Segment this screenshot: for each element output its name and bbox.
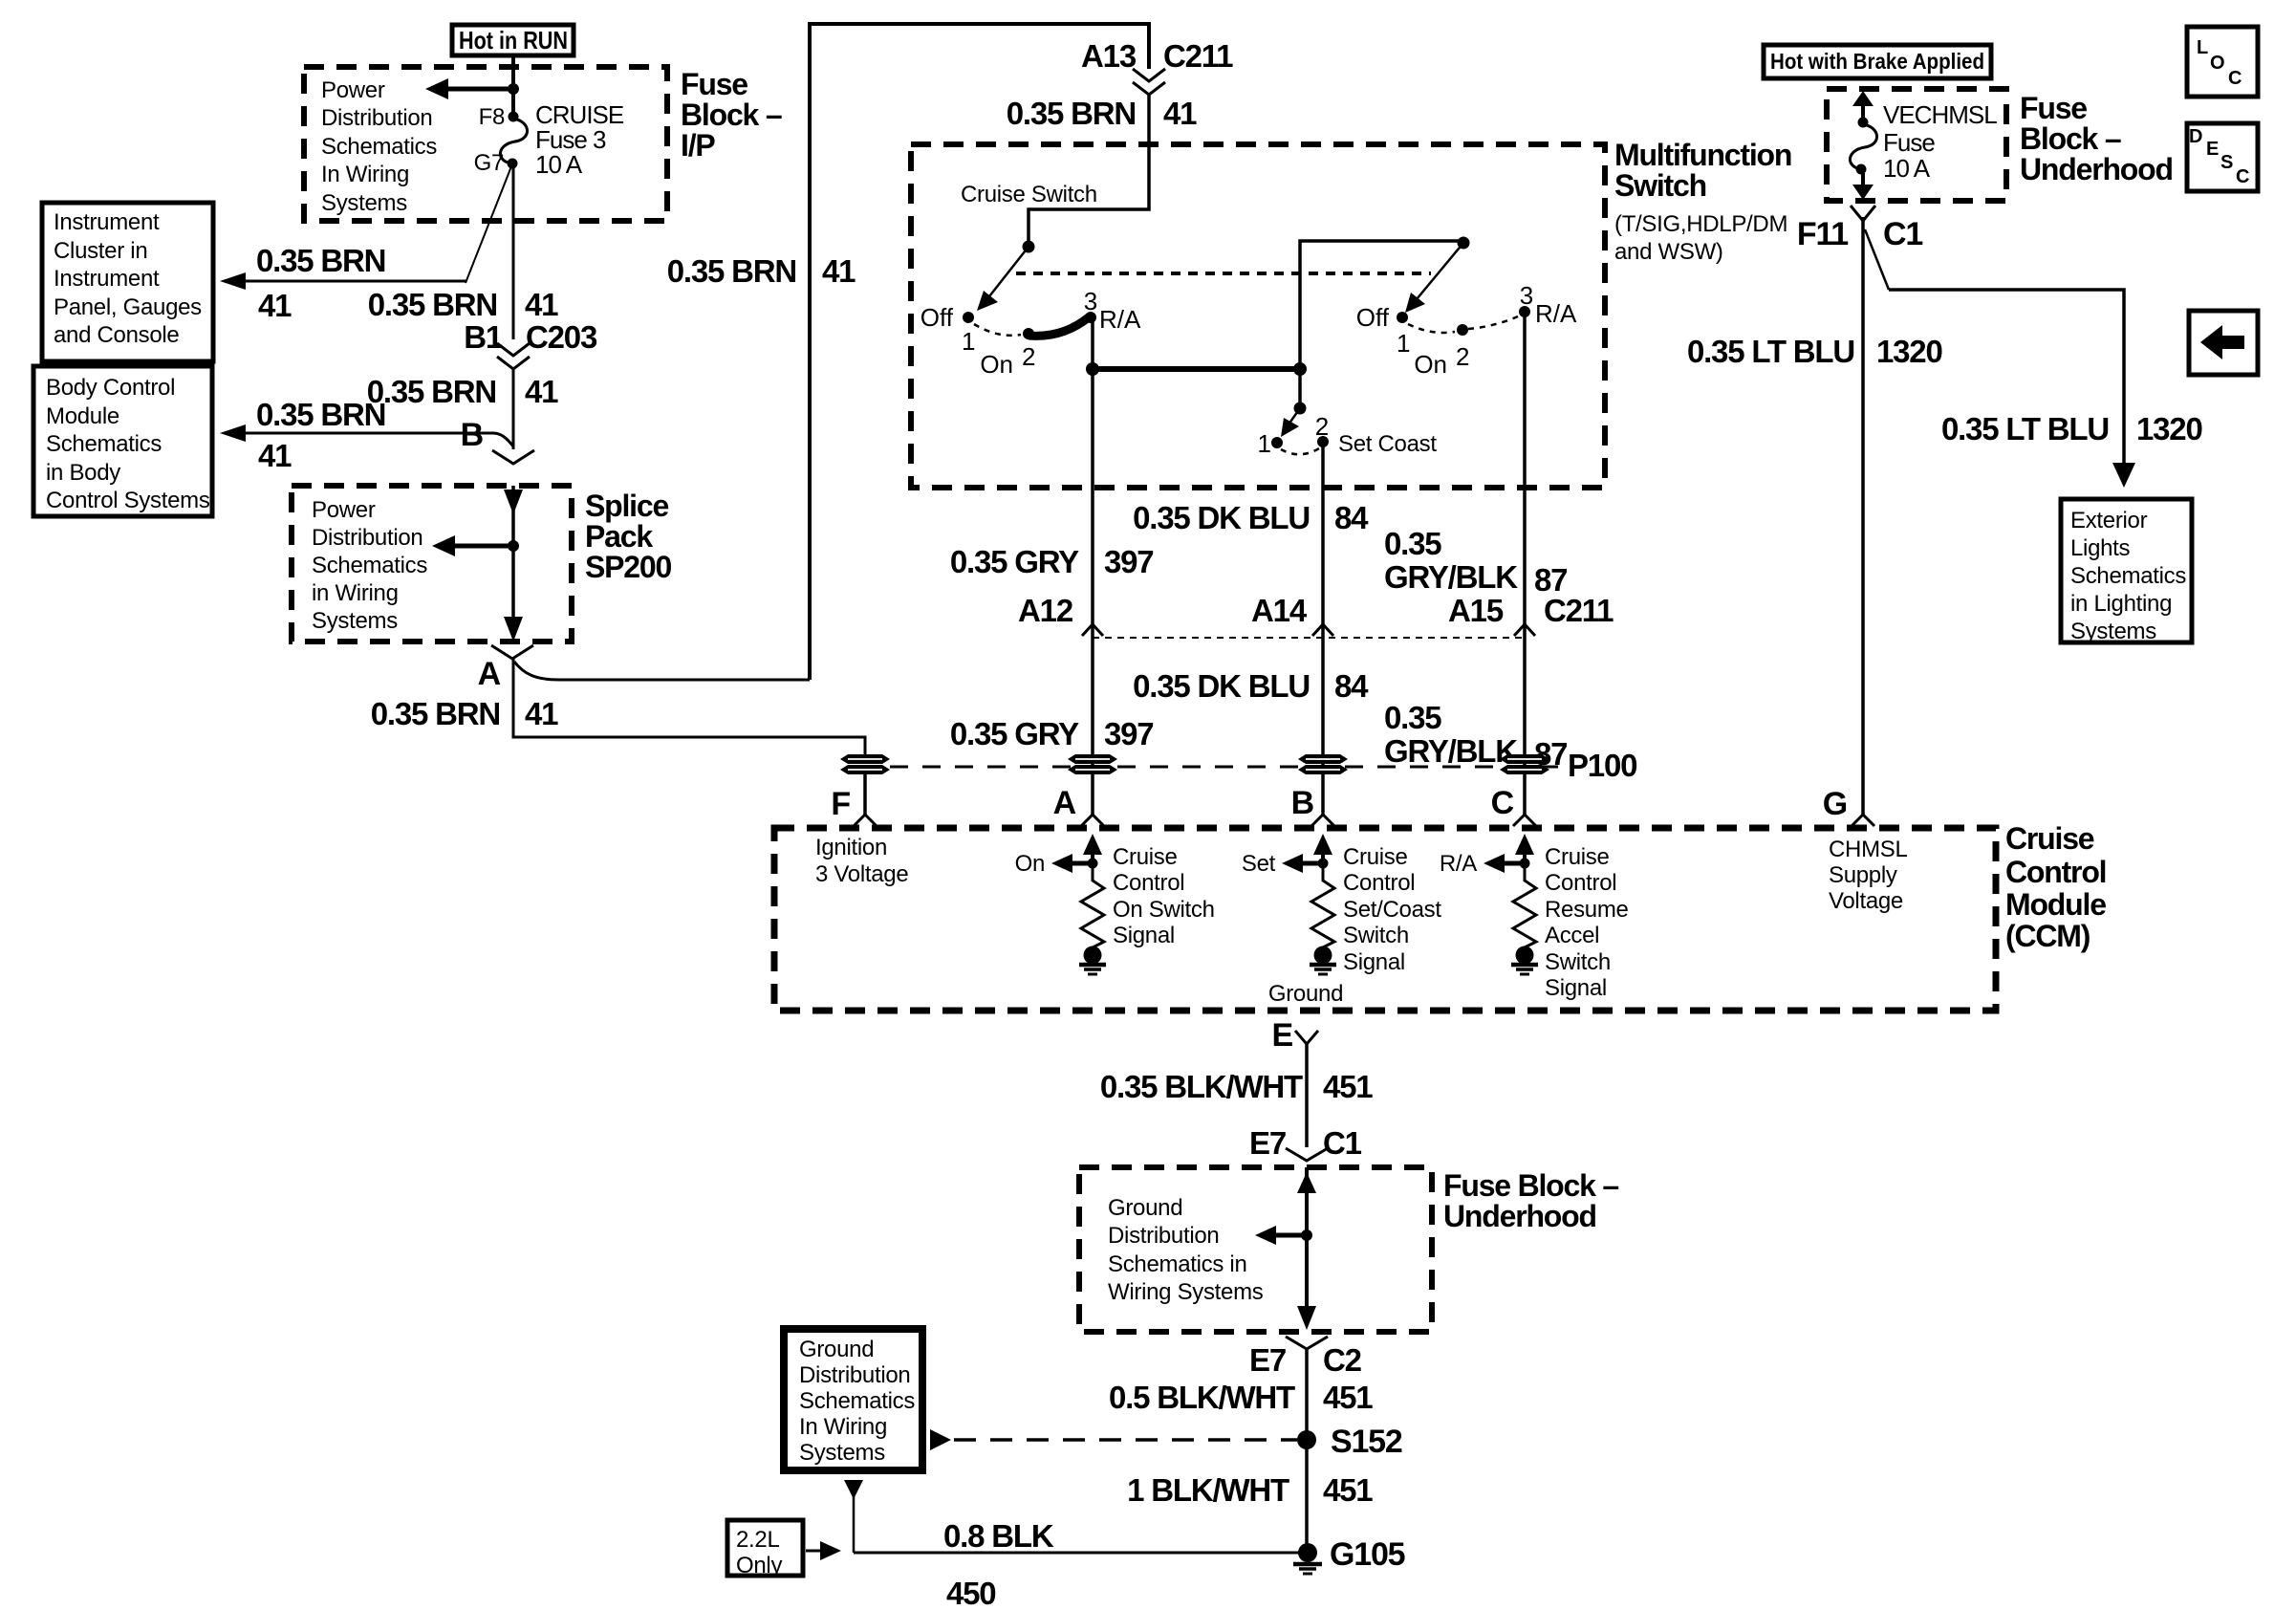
svg-text:CHMSL: CHMSL [1829,837,1908,862]
label Fuse Block I/P [681,67,782,163]
svg-text:0.35 BRN: 0.35 BRN [368,287,497,322]
svg-text:Distribution: Distribution [312,525,422,551]
svg-text:Control: Control [1545,870,1616,896]
resistor cruise set/coast switch signal [1311,863,1334,947]
ground CCM resume accel switch [1511,946,1538,975]
switch S2 contact 1 Off [1356,303,1411,358]
splice pack SP200 dashed box [292,486,572,642]
grommet P100 at F [840,754,890,774]
svg-text:S: S [2220,152,2233,173]
arrow R/A [1440,851,1525,877]
wire down to set/coast pivot [1298,369,1302,402]
CCM pin C up arrow [1515,834,1534,863]
ground CCM on switch [1079,946,1106,975]
svg-text:F11: F11 [1797,216,1848,252]
wire label 0.35 BRN 41 below C203 [367,374,558,409]
svg-text:Pack: Pack [585,519,653,554]
svg-text:Schematics: Schematics [321,134,437,160]
fuse block I/P dashed box [304,67,667,221]
wire contact 3 down to bus junction [1091,317,1094,369]
instrument cluster reference box [42,203,213,361]
power source label Hot with Brake Applied [1764,45,1991,78]
svg-text:Exterior: Exterior [2070,508,2148,533]
svg-text:A: A [478,656,501,692]
switch S2 pivot [1458,237,1470,250]
svg-text:Underhood: Underhood [1443,1199,1596,1233]
svg-text:Systems: Systems [312,608,398,634]
switch S3 contact 1 [1258,429,1283,458]
svg-text:A14: A14 [1251,593,1308,628]
connector C203 pin B1 [464,319,597,369]
node bus junction left [1086,362,1099,376]
svg-text:Cruise: Cruise [1113,844,1178,870]
connector C1 pin E7 [1249,1125,1362,1161]
wire label 0.35 BRN 41 (body control module) [256,397,385,473]
svg-text:A12: A12 [1018,593,1073,628]
svg-text:Block –: Block – [2020,121,2121,156]
svg-text:Splice: Splice [585,489,668,523]
svg-text:Switch: Switch [1614,168,1706,203]
arrow down to splice pack bottom [504,617,523,642]
svg-text:2: 2 [1456,342,1469,371]
svg-text:In Wiring: In Wiring [799,1414,887,1440]
wire into fuse block with up arrow [1297,1167,1316,1235]
svg-text:0.35 BRN: 0.35 BRN [367,374,496,409]
switch S2 contact arc dashed 1-2 [1408,324,1455,333]
svg-text:On: On [980,350,1013,379]
svg-text:0.35 BRN: 0.35 BRN [1007,96,1136,131]
svg-text:G: G [1823,786,1847,822]
wire F down to CCM [863,774,867,815]
wire label 0.35 BRN 41 (A13) [1007,96,1197,131]
svg-text:3: 3 [1084,287,1097,315]
svg-text:Fuse: Fuse [681,67,747,101]
label Splice Pack SP200 [585,489,671,584]
arrow down from ground distribution box [844,1480,863,1553]
wire branch to exterior lights [1889,290,2135,488]
arrow On [1015,851,1093,877]
svg-text:Control: Control [1113,870,1184,896]
svg-text:S152: S152 [1331,1424,1402,1460]
svg-text:Distribution: Distribution [1108,1223,1219,1249]
note power distribution schematics in wiring systems [321,77,437,216]
wire below C203 [512,369,515,449]
svg-text:B: B [1291,785,1314,821]
fuse block underhood dashed box (ground distribution) [1079,1167,1432,1332]
svg-text:Instrument: Instrument [54,266,160,292]
svg-text:Power: Power [312,497,376,523]
svg-text:(T/SIG,HDLP/DM: (T/SIG,HDLP/DM [1614,211,1787,237]
svg-text:Signal: Signal [1545,975,1607,1001]
switch S3 contact arc dashed [1281,448,1319,454]
label Cruise Control Set/Coast Switch Signal [1343,844,1441,975]
svg-text:Distribution: Distribution [799,1362,910,1388]
wire from Hot in RUN into fuse block [511,55,515,117]
svg-text:C1: C1 [1323,1125,1362,1161]
wire down arrow to fuse box bottom [1852,169,1874,200]
wire G down from fuse to CCM [1861,217,1865,815]
wire bus to set/coast branch [1093,366,1300,372]
wire label 0.35 GRY/BLK 87 (lower) [1384,700,1567,772]
wire from A to riser [514,662,810,680]
connector C1 pin F11 [1797,206,1922,252]
svg-text:R/A: R/A [1535,299,1577,328]
svg-text:Fuse Block –: Fuse Block – [1443,1168,1618,1203]
svg-text:1 BLK/WHT: 1 BLK/WHT [1127,1472,1289,1508]
wire up to switch S2 pivot [1300,241,1460,369]
node CCM C junction [1520,859,1530,869]
svg-text:I/P: I/P [681,128,715,163]
label Cruise Control On Switch Signal [1113,844,1215,948]
svg-text:Ground: Ground [1108,1195,1182,1221]
wire label 0.35 BRN 41 (instrument cluster) [256,243,385,323]
node CCM B junction [1318,859,1329,869]
svg-text:Power: Power [321,77,385,103]
svg-text:0.35 GRY: 0.35 GRY [950,716,1079,751]
svg-text:1320: 1320 [1876,334,1942,369]
wire label 0.35 BRN 41 (below splice A) [371,696,558,731]
wire label 0.35 BLK/WHT 451 [1100,1069,1373,1104]
wire fuse output down [512,163,515,339]
svg-text:A: A [1053,785,1076,821]
svg-text:84: 84 [1334,500,1369,535]
svg-text:0.35 DK BLU: 0.35 DK BLU [1133,500,1310,535]
svg-text:Supply: Supply [1829,862,1897,888]
svg-text:2.2L: 2.2L [736,1527,780,1553]
switch S1 contact arc dashed [974,324,1021,336]
svg-text:Cluster in: Cluster in [54,238,147,264]
svg-text:Hot with Brake Applied: Hot with Brake Applied [1770,49,1984,74]
svg-text:Schematics in: Schematics in [1108,1251,1247,1277]
wire 0.8 BLK 450 [854,1552,1300,1555]
svg-text:G7: G7 [474,150,504,176]
svg-text:397: 397 [1104,716,1153,751]
wire label 0.35 DK BLU 84 (upper) [1133,500,1369,535]
dashed reference line to S152 with arrow [930,1429,1297,1450]
svg-text:451: 451 [1323,1380,1373,1415]
svg-text:E7: E7 [1249,1125,1286,1161]
pin G7 [474,150,518,176]
svg-text:2: 2 [1315,412,1329,441]
arrow to ground distribution [1255,1226,1307,1245]
connector A splice pack bottom [478,645,533,692]
svg-text:R/A: R/A [1099,305,1141,334]
svg-text:Fuse: Fuse [1883,128,1935,157]
label CHMSL Supply Voltage [1829,837,1908,914]
svg-text:0.35 BRN: 0.35 BRN [667,253,796,289]
svg-text:G105: G105 [1330,1536,1405,1573]
svg-text:A13: A13 [1081,38,1137,74]
svg-text:Only: Only [736,1553,782,1578]
splice S152 [1297,1424,1402,1460]
wire into splice pack with down arrow [504,486,523,628]
svg-text:41: 41 [258,438,292,473]
svg-text:Control Systems: Control Systems [46,488,210,513]
svg-text:41: 41 [258,288,292,323]
grommet P100 dashed line and label [890,748,1636,783]
wire S2 contact 3 down to CCM C [1523,312,1527,815]
switch S1 contact 2 On [980,328,1035,379]
CCM pin B up arrow [1313,834,1332,863]
svg-text:2: 2 [1022,342,1035,371]
wire label 0.35 LT BLU 1320 (branch) [1941,411,2202,446]
pin F8 [479,104,519,130]
wire arrow to instrument cluster [220,272,466,290]
svg-text:Set/Coast: Set/Coast [1343,897,1441,923]
connector A at CCM [1053,785,1104,826]
svg-text:in Wiring: in Wiring [312,580,399,606]
power source label Hot in RUN [452,25,574,55]
svg-text:C2: C2 [1323,1342,1362,1378]
svg-text:in Lighting: in Lighting [2070,591,2172,617]
fuse value label VECHMSL Fuse 10 A [1883,100,1997,183]
svg-text:0.35: 0.35 [1384,700,1441,735]
CCM pin A up arrow [1083,834,1102,863]
svg-text:41: 41 [525,374,558,409]
svg-text:On: On [1414,350,1447,379]
svg-text:Underhood: Underhood [2020,152,2173,186]
svg-text:E: E [2206,139,2219,160]
exterior lights reference box [2061,499,2192,644]
connector F at CCM [831,786,877,826]
svg-text:GRY/BLK: GRY/BLK [1384,559,1518,595]
svg-text:0.35 DK BLU: 0.35 DK BLU [1133,668,1310,704]
switch S2 contact arc dashed 2-3 [1468,316,1518,329]
switch S2 contact 2 On [1414,324,1469,379]
svg-text:397: 397 [1104,544,1153,579]
svg-text:10 A: 10 A [1883,154,1931,183]
svg-text:Cruise Switch: Cruise Switch [961,182,1097,207]
connector B splice pack top [461,417,534,464]
svg-text:Signal: Signal [1343,949,1405,975]
svg-text:Voltage: Voltage [1829,888,1903,914]
svg-text:P100: P100 [1568,748,1636,783]
node ground distribution junction [1301,1229,1312,1241]
wire label 0.35 LT BLU 1320 (G wire) [1687,334,1942,369]
grommet P100 at C [1500,754,1549,774]
svg-text:Cruise: Cruise [1343,844,1408,870]
svg-text:Ground: Ground [1268,981,1343,1007]
svg-text:Distribution: Distribution [321,105,432,131]
arrow Set [1242,851,1323,877]
label Fuse Block Underhood (top) [2020,91,2173,186]
ground G105 [1293,1536,1405,1574]
svg-text:C211: C211 [1544,593,1614,628]
svg-text:C203: C203 [526,319,597,355]
svg-text:0.35 BRN: 0.35 BRN [256,397,385,432]
cruise control module CCM dashed box [774,828,1996,1011]
ground CCM set/coast switch [1310,946,1336,975]
svg-text:0.8 BLK: 0.8 BLK [943,1518,1054,1554]
node CCM A junction [1088,859,1098,869]
svg-text:L: L [2197,37,2208,58]
svg-text:and WSW): and WSW) [1614,239,1723,265]
fuse block underhood dashed box (VECHMSL) [1827,89,2006,201]
svg-text:Signal: Signal [1113,923,1175,948]
node bus junction right [1293,362,1307,376]
connector B at CCM [1291,785,1334,826]
svg-text:Ignition: Ignition [815,835,887,860]
wire set/coast down to CCM B [1321,442,1325,815]
svg-text:3: 3 [1520,281,1533,310]
icon LOC box [2187,27,2258,97]
wire diagonal tap to instrument cluster [466,166,511,283]
label Multifunction Switch [1614,138,1791,265]
svg-text:On Switch: On Switch [1113,897,1215,923]
svg-text:41: 41 [822,253,856,289]
svg-text:0.35 GRY: 0.35 GRY [950,544,1079,579]
fuse VECHMSL 10 A [1850,118,1876,175]
svg-text:C: C [1491,785,1514,821]
svg-text:Module: Module [46,403,119,429]
connector C211 pin A13 [1081,38,1233,95]
svg-text:Set: Set [1242,851,1276,877]
label 2.2L Only box [727,1520,803,1578]
connector E below CCM [1272,1017,1318,1054]
svg-text:R/A: R/A [1440,851,1477,877]
body control module reference box [33,366,212,516]
svg-text:Switch: Switch [1545,949,1611,975]
wire riser up to top [810,24,1149,680]
svg-text:Schematics: Schematics [312,553,427,578]
svg-text:F: F [831,786,850,822]
switch S3 set/coast pivot [1294,402,1307,415]
multifunction switch dashed box [911,144,1605,488]
label Ignition 3 Voltage [815,835,908,887]
svg-text:VECHMSL: VECHMSL [1883,100,1997,129]
svg-text:451: 451 [1323,1472,1373,1508]
svg-text:and Console: and Console [54,322,179,348]
svg-text:451: 451 [1323,1069,1373,1104]
svg-text:F8: F8 [479,104,505,130]
icon DESC box [2187,123,2258,191]
wire label 0.35 BRN 41 (riser) [667,253,856,289]
svg-text:Hot in RUN: Hot in RUN [459,26,568,54]
wire A13 down to cruise switch pivot [1029,95,1149,241]
svg-text:1: 1 [1397,329,1410,358]
svg-text:A15: A15 [1448,593,1504,628]
svg-text:(CCM): (CCM) [2005,919,2090,953]
icon back arrow box [2189,311,2258,375]
svg-text:Module: Module [2005,887,2106,922]
svg-text:0.35: 0.35 [1384,526,1441,561]
svg-text:Schematics: Schematics [799,1388,915,1414]
label Cruise Control Module (CCM) [2005,821,2106,953]
svg-text:Control: Control [1343,870,1415,896]
svg-text:B: B [461,417,484,453]
switch S1 closed contact thick arc 2-3 [1029,316,1090,336]
svg-text:41: 41 [1163,96,1197,131]
switch S2 blade arrow [1405,243,1463,313]
svg-text:Wiring Systems: Wiring Systems [1108,1279,1264,1305]
svg-text:Ground: Ground [799,1337,874,1362]
svg-text:3 Voltage: 3 Voltage [815,861,908,887]
svg-text:E: E [1272,1017,1293,1054]
svg-text:Schematics: Schematics [46,431,162,457]
svg-text:Fuse: Fuse [2020,91,2087,125]
svg-text:41: 41 [525,696,558,731]
svg-text:0.35 BLK/WHT: 0.35 BLK/WHT [1100,1069,1303,1104]
switch S2 contact 3 R/A [1519,281,1577,328]
node splice junction [508,540,519,552]
svg-text:Off: Off [921,303,954,332]
svg-text:1: 1 [1258,429,1271,458]
switch S3 blade arrow [1281,408,1300,437]
svg-text:C211: C211 [1163,38,1233,74]
svg-text:Panel, Gauges: Panel, Gauges [54,294,202,320]
connector C2 pin E7 [1249,1337,1362,1378]
svg-text:0.35 BRN: 0.35 BRN [371,696,500,731]
wire label 0.35 GRY/BLK 87 (upper) [1384,526,1567,598]
svg-text:in Body: in Body [46,460,120,486]
label Cruise Control Resume Accel Switch Signal [1545,844,1629,1001]
node junction at fuse feed [508,83,519,95]
wire label 0.35 DK BLU 84 (lower) [1133,668,1369,704]
wire E down [1305,1044,1309,1147]
grommet P100 at A [1068,754,1117,774]
svg-text:0.35 LT BLU: 0.35 LT BLU [1687,334,1854,369]
grommet P100 at B [1298,754,1348,774]
resistor cruise on switch signal [1081,863,1104,947]
svg-text:On: On [1015,851,1045,877]
svg-text:Off: Off [1356,303,1390,332]
svg-text:Instrument: Instrument [54,209,160,235]
svg-text:E7: E7 [1249,1342,1286,1378]
svg-text:0.5 BLK/WHT: 0.5 BLK/WHT [1109,1380,1295,1415]
note ground distribution schematics in wiring systems [1108,1195,1264,1305]
svg-text:84: 84 [1334,668,1369,704]
svg-text:Resume: Resume [1545,897,1629,923]
fuse value label [535,100,624,179]
svg-text:41: 41 [525,287,558,322]
svg-text:Control: Control [2005,855,2106,889]
wire branch diagonal [1865,229,1889,290]
arrow to power distribution (SP200) [432,535,513,556]
svg-text:In Wiring: In Wiring [321,162,409,187]
svg-text:D: D [2189,126,2202,147]
switch S1 pivot [1023,241,1035,253]
svg-text:O: O [2210,53,2225,74]
svg-text:B1: B1 [464,319,503,355]
connector G at CCM [1823,786,1874,826]
switch S1 blade arrow [977,247,1029,311]
wire cruise on down to CCM A [1091,369,1094,815]
wire arrow to body control module [220,424,513,446]
connector C at CCM [1491,785,1536,826]
svg-text:Lights: Lights [2070,535,2131,561]
svg-text:Set Coast: Set Coast [1338,431,1437,457]
svg-text:Cruise: Cruise [1545,844,1610,870]
wire label 0.35 GRY 397 (upper) [950,544,1154,579]
connector C211 dashed line [1093,637,1525,639]
connector C211 pins A12 A14 A15 [1018,593,1614,636]
svg-text:C1: C1 [1883,216,1922,252]
svg-text:C: C [2228,68,2242,89]
svg-text:Systems: Systems [799,1440,885,1466]
note power distribution schematics in wiring systems (SP200) [312,497,427,634]
wire label 0.35 BRN 41 above C203 [368,287,558,322]
svg-text:0.35 LT BLU: 0.35 LT BLU [1941,411,2109,446]
switch S1 contact 1 Off [921,303,976,356]
arrow to power distribution [425,78,513,99]
svg-text:Multifunction: Multifunction [1614,138,1791,172]
arrow from 2.2L only [806,1541,841,1560]
label Fuse Block Underhood (bottom) [1443,1168,1618,1233]
svg-text:10 A: 10 A [535,150,583,179]
svg-text:Cruise: Cruise [2005,821,2094,856]
svg-text:Systems: Systems [2070,619,2156,644]
svg-text:1: 1 [962,327,975,356]
